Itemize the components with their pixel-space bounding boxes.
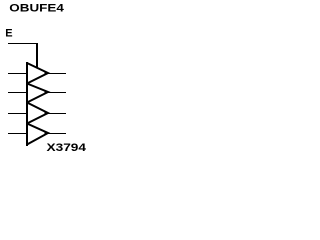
buffer triangle 2 [27, 84, 48, 103]
wire: E horizontal segment [8, 43, 38, 44]
buffer triangle 4 [27, 124, 48, 145]
buffer apex tip at y=73 [45, 71, 49, 75]
wire: output O2 [47, 113, 66, 114]
svg-text:OBUFE4: OBUFE4 [9, 3, 65, 15]
wire: input I0 [8, 73, 27, 74]
svg-text:E: E [5, 28, 12, 40]
wire: output O3 [47, 133, 66, 134]
buffer apex tip at y=92 [45, 90, 49, 94]
buffer apex tip at y=133 [45, 131, 49, 135]
svg-text:X3794: X3794 [47, 142, 88, 154]
wire: output O0 [47, 73, 66, 74]
buffer apex tip at y=113 [45, 111, 49, 115]
wire: output O1 [47, 92, 66, 93]
buffer triangle 3 [27, 103, 48, 124]
wire: E vertical segment [36, 43, 38, 67]
wire: input I3 [8, 133, 27, 134]
buffer triangle 1 [27, 63, 48, 84]
wire: input I2 [8, 113, 27, 114]
left rail (shared triangle left edges) [26, 62, 28, 146]
background [0, 0, 91, 163]
wire: input I1 [8, 92, 27, 93]
